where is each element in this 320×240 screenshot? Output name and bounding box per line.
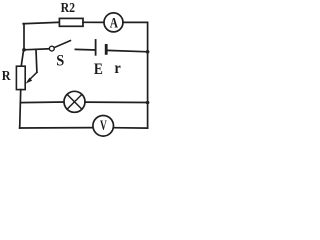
junction dot: lamp row at right vertical [146,101,150,105]
battery E: short thick plate [105,45,108,53]
lamp X stroke 1 [67,94,82,109]
resistor R2 [59,18,83,26]
wire: voltmeter to bottom-right corner [113,127,147,129]
junction dot: left node [22,48,26,52]
lamp X stroke 2 [67,94,82,109]
rheostat wiper arrowhead [26,78,33,84]
wire: left node to switch [24,49,49,50]
wire: switch to battery positive plate [75,48,95,51]
wire: right vertical (top-right corner down to bottom-right corner) [147,22,149,128]
wire: top-left corner to resistor R2 [23,22,59,23]
svg-text:r: r [114,60,121,77]
wire: lamp row left (left vertical to lamp) [20,101,64,104]
switch S: pivot circle [49,46,54,51]
wire: lamp to right vertical [85,101,148,103]
svg-text:E: E [94,61,103,78]
wire: wiper stem from middle row down [35,50,38,73]
battery E: long plate [95,40,97,55]
svg-text:V: V [100,118,107,134]
lamp (circle with X) [64,91,85,112]
wire: top-left corner vertical (left node up to top wire) [23,24,25,50]
svg-text:S: S [56,53,64,70]
wire: ammeter to top-right corner [123,21,148,23]
voltmeter V (circle) [93,116,114,137]
svg-text:R: R [2,69,12,84]
switch S: lever blade [54,41,70,48]
wire: bottom-left corner to voltmeter [20,127,94,129]
rheostat R (box) [16,66,25,89]
ammeter A (circle) [104,13,123,32]
wire: R2 to ammeter [83,21,104,23]
wire: battery to right vertical [107,50,147,51]
junction dot: battery row at right vertical [146,50,150,54]
wire: rheostat bottom to bottom-left corner [20,90,21,128]
svg-text:R2: R2 [61,1,76,16]
svg-text:A: A [110,15,118,32]
rheostat wiper arrow shaft [29,72,37,80]
wire: left node down to rheostat top terminal [21,50,23,67]
